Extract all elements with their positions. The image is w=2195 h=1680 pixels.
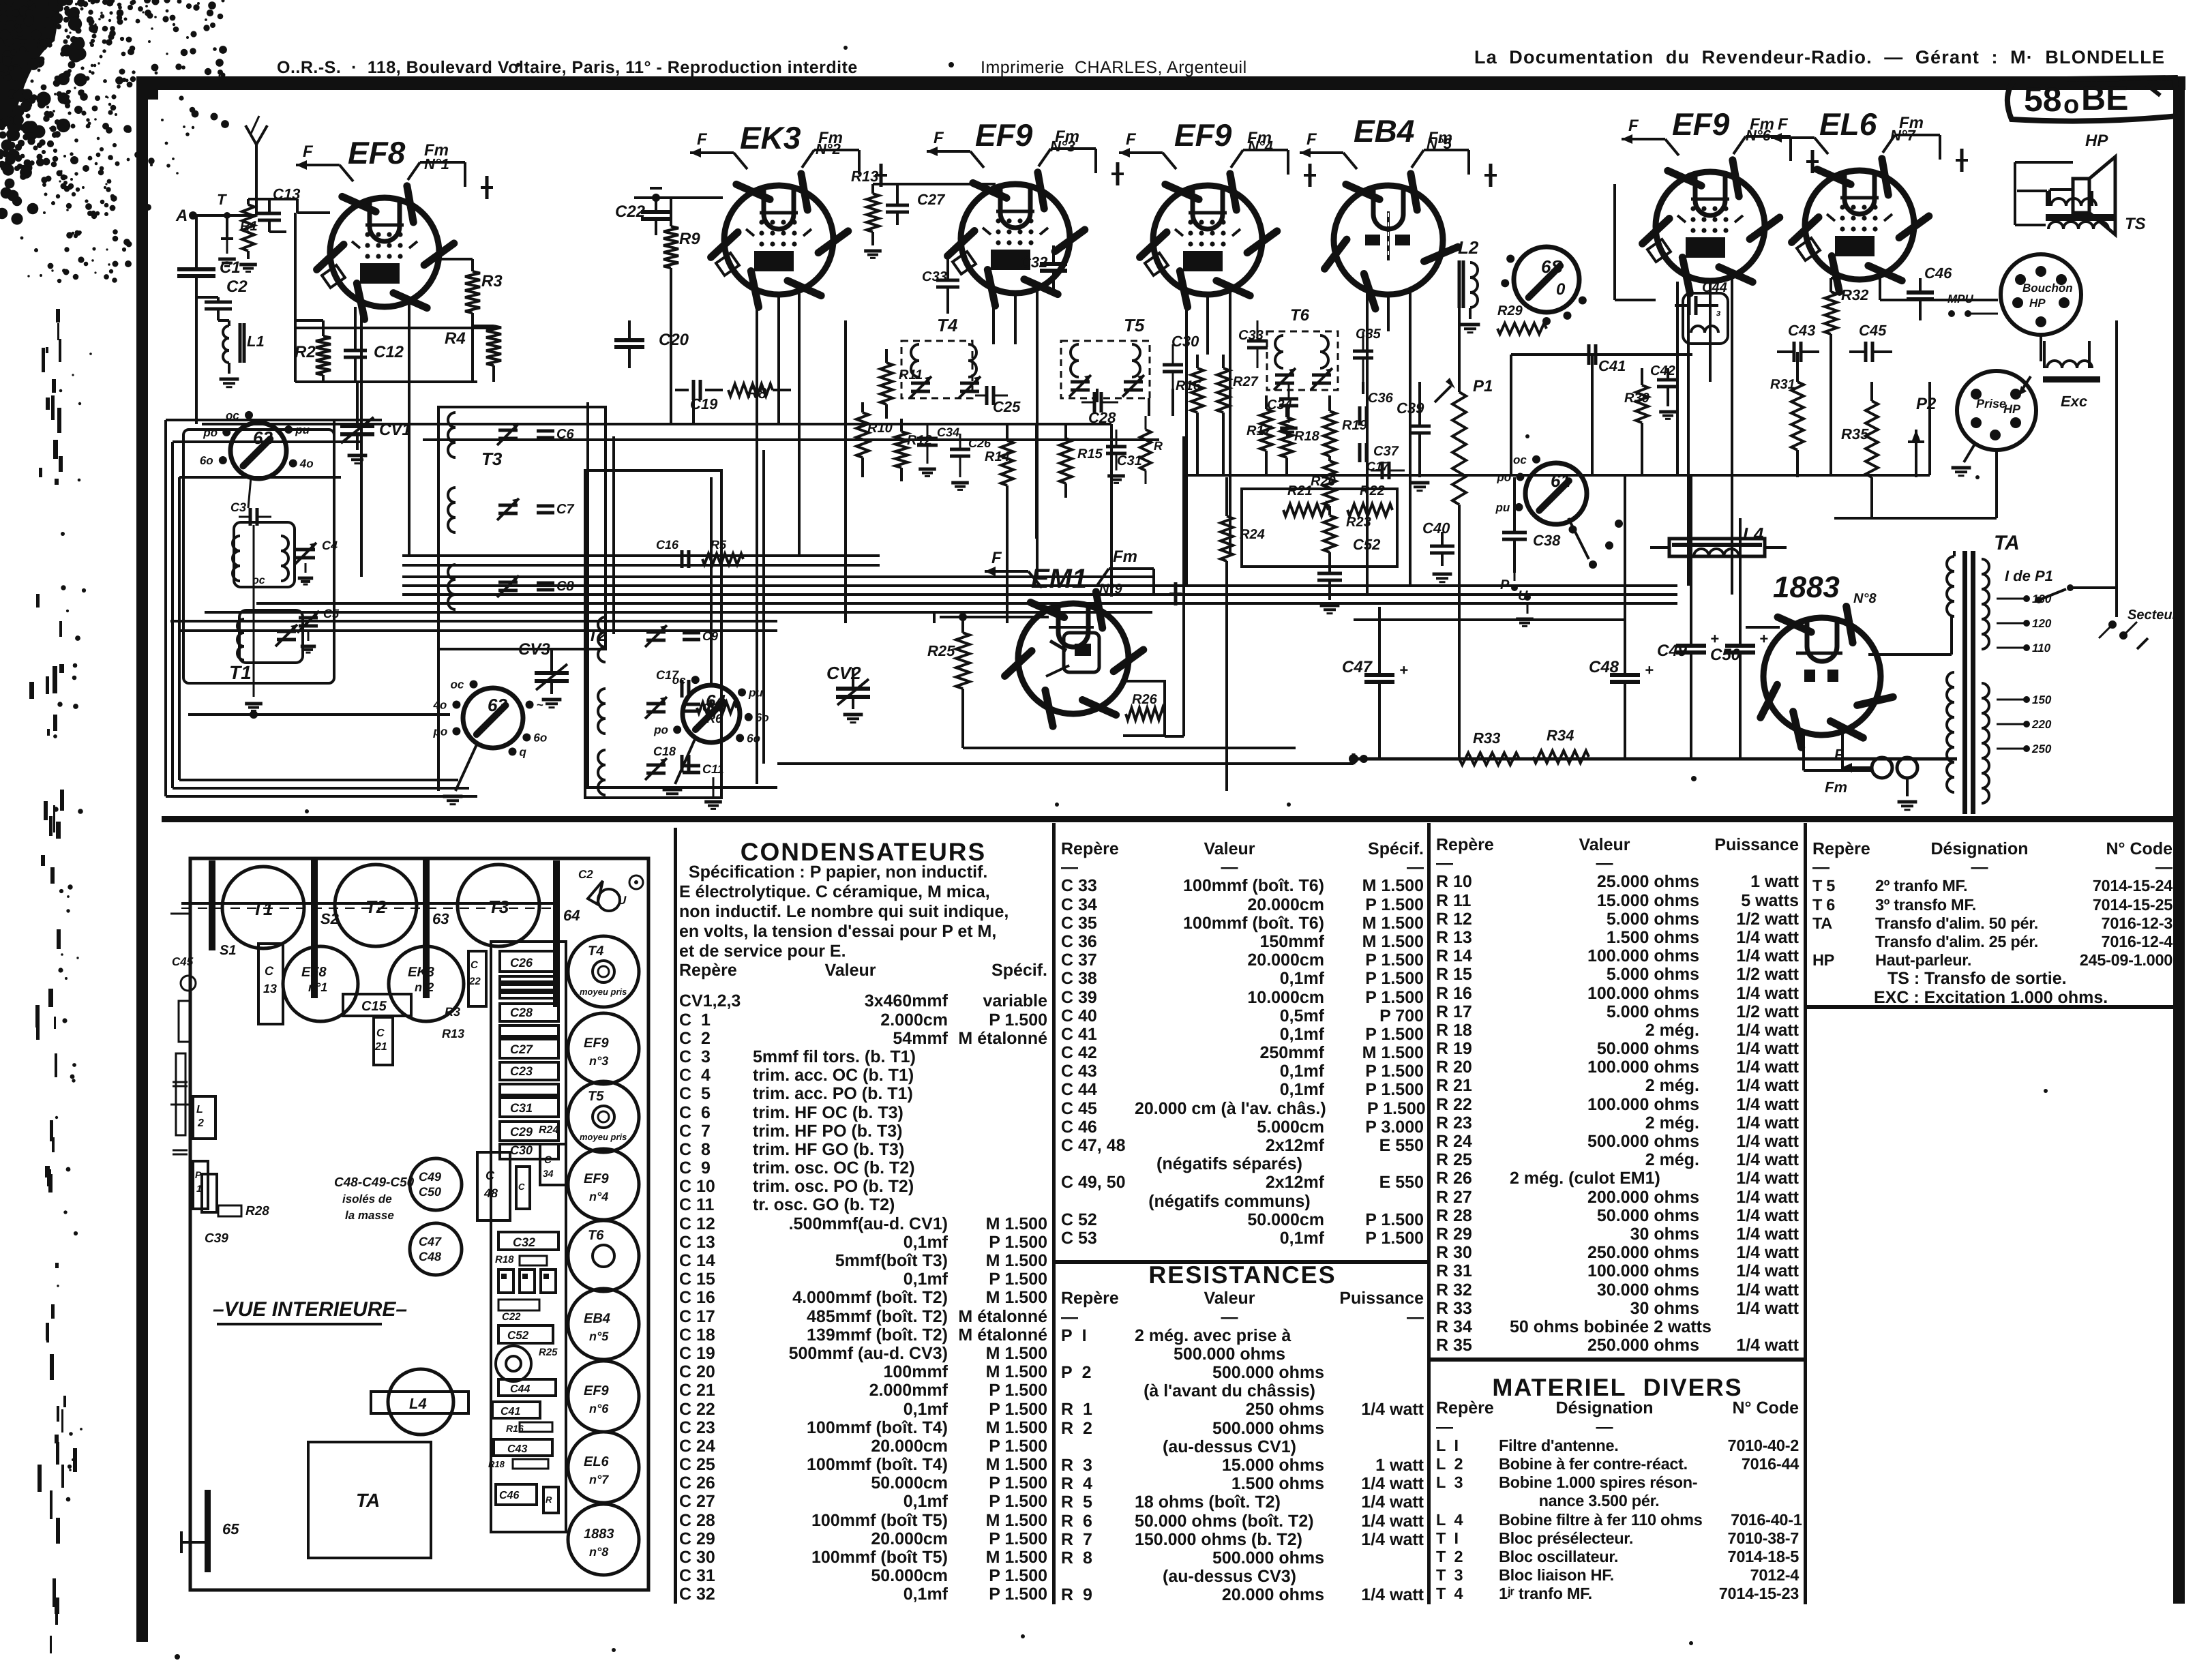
svg-text:C26: C26 xyxy=(510,956,533,970)
svg-text:C3: C3 xyxy=(230,500,246,514)
svg-text:³: ³ xyxy=(1716,309,1721,324)
tube EF9 N4 xyxy=(1153,185,1262,295)
svg-text:C: C xyxy=(265,964,274,978)
svg-text:C43: C43 xyxy=(1788,322,1815,339)
condenser C46 chassis xyxy=(496,1484,537,1505)
svg-text:S2: S2 xyxy=(320,910,340,927)
T1 trimmer C4 xyxy=(296,548,315,552)
svg-text:n°4: n°4 xyxy=(589,1190,608,1203)
svg-text:C20: C20 xyxy=(659,331,689,349)
wire C47 bus xyxy=(1354,618,1625,621)
svg-text:C25: C25 xyxy=(993,398,1021,415)
part Rk xyxy=(543,1487,558,1513)
svg-text:250: 250 xyxy=(2031,742,2052,755)
EL6 filament marks xyxy=(1771,136,1815,139)
svg-text:n°1: n°1 xyxy=(308,980,327,994)
EM1 bottom wire xyxy=(961,723,964,748)
tube EF8 location xyxy=(283,946,358,1021)
speaker HP xyxy=(2073,179,2089,213)
svg-text:TA: TA xyxy=(1994,532,2020,554)
svg-text:n°8: n°8 xyxy=(589,1545,608,1559)
svg-text:+: + xyxy=(1645,661,1654,678)
svg-text:R24: R24 xyxy=(539,1124,558,1136)
model label 580BE box xyxy=(2007,78,2178,121)
svg-text:TS: TS xyxy=(2125,215,2146,233)
svg-text:R4: R4 xyxy=(445,329,466,348)
svg-text:T5: T5 xyxy=(1124,315,1145,335)
svg-text:EF8: EF8 xyxy=(301,965,327,980)
svg-text:R28: R28 xyxy=(245,1204,269,1218)
fuse ground xyxy=(1906,778,1909,796)
T1 bottom bus xyxy=(188,713,450,716)
svg-text:R5: R5 xyxy=(711,538,727,552)
svg-text:L1: L1 xyxy=(247,333,265,350)
wire bus mid0a xyxy=(402,554,880,557)
svg-text:R18: R18 xyxy=(1294,429,1320,444)
strip components xyxy=(500,951,558,972)
tube 1883 N8 xyxy=(1763,618,1881,735)
svg-text:C50: C50 xyxy=(1710,646,1741,664)
svg-text:L: L xyxy=(196,1104,203,1115)
svg-text:58: 58 xyxy=(2024,80,2062,119)
svg-text:13: 13 xyxy=(263,982,277,995)
svg-text:T2: T2 xyxy=(365,897,387,917)
wire bus right xyxy=(1183,474,1677,477)
svg-text:R3: R3 xyxy=(445,1005,460,1019)
svg-text:C46: C46 xyxy=(1924,265,1952,282)
wire bus low2 xyxy=(586,786,777,789)
svg-text:T6: T6 xyxy=(1290,306,1310,325)
svg-text:Fm: Fm xyxy=(424,141,449,160)
wire EF8 cathode bus xyxy=(295,380,477,383)
svg-text:n°5: n°5 xyxy=(589,1330,609,1343)
TA secondary top coil xyxy=(1982,559,1989,574)
coil L1 xyxy=(223,326,229,338)
svg-text:R18: R18 xyxy=(488,1459,505,1469)
svg-text:C46: C46 xyxy=(499,1490,519,1501)
switch wafer 62 xyxy=(230,423,286,479)
wire loop around 62 xyxy=(333,420,335,436)
svg-text:110: 110 xyxy=(2032,642,2051,655)
svg-text:T1: T1 xyxy=(229,662,252,683)
capacitor C17 xyxy=(681,680,684,697)
svg-text:C43: C43 xyxy=(507,1443,527,1455)
svg-text:C29: C29 xyxy=(510,1125,533,1139)
capacitor C26s xyxy=(950,448,970,451)
condenser C21 location xyxy=(374,1017,393,1065)
svg-text:EF9: EF9 xyxy=(1174,117,1232,153)
bloc T3 coils xyxy=(448,412,456,427)
svg-text:Fm: Fm xyxy=(1750,115,1774,134)
bloc T2 coils xyxy=(598,617,606,632)
small screw xyxy=(629,875,643,889)
tube EF9 N3 xyxy=(961,184,1070,293)
svg-text:C: C xyxy=(486,1169,495,1182)
svg-text:C18: C18 xyxy=(653,745,676,758)
condenser C43 chassis xyxy=(494,1439,552,1456)
EK3 filament marks xyxy=(690,151,734,154)
svg-text:EL6: EL6 xyxy=(584,1454,610,1469)
svg-text:Fm: Fm xyxy=(818,129,843,147)
condenser C32 chassis xyxy=(498,1232,558,1250)
svg-text:P1: P1 xyxy=(1473,377,1493,395)
svg-text:C52: C52 xyxy=(507,1329,529,1342)
svg-text:Fm: Fm xyxy=(1113,547,1137,566)
wire bouchon-prise xyxy=(2040,335,2042,361)
trimmer slat S1 xyxy=(209,860,215,950)
condenser C41 chassis xyxy=(492,1402,540,1418)
gang section T3 xyxy=(458,865,539,946)
svg-text:po: po xyxy=(432,725,447,738)
resistor R15b xyxy=(1140,430,1151,470)
left wire bundle bends xyxy=(166,419,382,421)
EF9 N6 filament marks xyxy=(1622,138,1665,140)
bloc T2 box xyxy=(585,470,721,798)
resistor R28 chassis xyxy=(218,1205,241,1216)
grommet circle xyxy=(496,1346,531,1381)
wire 62 to T1 xyxy=(248,477,251,508)
svg-text:R25: R25 xyxy=(539,1347,558,1358)
svg-text:F: F xyxy=(1126,130,1137,149)
svg-text:65: 65 xyxy=(222,1520,239,1537)
prise HP ground xyxy=(1964,442,1976,462)
switch wafer 6S xyxy=(1514,247,1579,312)
T1 trimmer C5b xyxy=(277,630,296,633)
svg-text:la masse: la masse xyxy=(345,1209,394,1222)
tube EK3 location xyxy=(389,946,464,1021)
wire prise drop xyxy=(1995,450,1998,518)
svg-text:T: T xyxy=(217,191,227,208)
svg-text:C28: C28 xyxy=(510,1006,533,1019)
svg-text:21: 21 xyxy=(374,1041,387,1053)
wire bus h1 xyxy=(295,380,477,383)
svg-text:L2: L2 xyxy=(1458,237,1479,258)
svg-text:R2: R2 xyxy=(295,343,316,361)
condenser C44 chassis xyxy=(498,1379,556,1396)
coil L2 chassis xyxy=(193,1096,215,1139)
trimmer slat 64 xyxy=(553,860,560,1007)
svg-text:I de P1: I de P1 xyxy=(2005,567,2053,584)
svg-text:R9: R9 xyxy=(679,230,700,248)
svg-text:–VUE INTERIEURE–: –VUE INTERIEURE– xyxy=(213,1298,407,1321)
tube sockets column xyxy=(568,936,639,1007)
svg-text:F: F xyxy=(1628,117,1639,135)
svg-text:2: 2 xyxy=(197,1117,204,1129)
fuse F xyxy=(1872,757,1892,778)
svg-text:C48-C49-C50: C48-C49-C50 xyxy=(334,1175,415,1190)
EM1 filament marks xyxy=(985,570,1028,573)
ground L1 xyxy=(220,378,239,381)
svg-text:63: 63 xyxy=(488,695,507,715)
svg-text:R16: R16 xyxy=(506,1423,524,1434)
svg-text:TA: TA xyxy=(356,1490,380,1511)
svg-text:L4: L4 xyxy=(409,1395,427,1412)
svg-text:150: 150 xyxy=(2032,693,2052,706)
svg-text:C30: C30 xyxy=(510,1143,533,1157)
svg-text:EK3: EK3 xyxy=(740,120,801,155)
svg-text:34: 34 xyxy=(543,1168,554,1179)
condenser C13 location xyxy=(258,944,283,1024)
svg-text:Fm: Fm xyxy=(1428,129,1452,147)
svg-text:EB4: EB4 xyxy=(1354,113,1414,149)
svg-text:EF9: EF9 xyxy=(584,1171,610,1186)
svg-text:Bouchon: Bouchon xyxy=(2022,282,2073,295)
tube EL6 N7 xyxy=(1805,170,1914,280)
TA secondary bottom coil xyxy=(1982,683,1989,698)
T1 trimmer C5 xyxy=(299,616,318,620)
svg-text:U: U xyxy=(618,894,627,907)
svg-text:C49: C49 xyxy=(419,1170,441,1184)
TA primary top coil xyxy=(1947,556,1954,571)
node EM1 left xyxy=(959,613,967,621)
wire EL6 to bouchon xyxy=(1880,299,1998,301)
frame right border xyxy=(2173,76,2185,1604)
transformer TA core xyxy=(1962,551,1967,814)
svg-text:HP: HP xyxy=(2085,132,2108,150)
svg-text:C: C xyxy=(376,1027,385,1039)
svg-text:O..R.-S. · 118, Boulevard Vo: O..R.-S. · 118, Boulevard Voltaire, Pari… xyxy=(277,58,858,77)
svg-text:6o: 6o xyxy=(533,732,547,745)
svg-text:Fm: Fm xyxy=(1825,779,1847,796)
svg-text:61: 61 xyxy=(1551,470,1570,491)
svg-text:F: F xyxy=(934,129,944,147)
transformer TA chassis xyxy=(308,1442,431,1558)
svg-text:C34: C34 xyxy=(937,425,959,439)
svg-text:T1: T1 xyxy=(252,899,273,919)
T1 capacitor C3 xyxy=(249,508,252,526)
svg-text:T3: T3 xyxy=(488,897,509,917)
svg-text:isolés de: isolés de xyxy=(342,1192,392,1205)
wire bus h3 xyxy=(423,438,1159,441)
svg-text:C27: C27 xyxy=(510,1042,533,1056)
switch wafer 61 xyxy=(1525,463,1587,524)
pot P1 chassis xyxy=(193,1161,208,1209)
svg-text:64: 64 xyxy=(563,907,580,924)
svg-text:0: 0 xyxy=(1556,280,1566,299)
frame left border xyxy=(136,76,148,1642)
svg-text:R29: R29 xyxy=(1497,303,1523,318)
svg-text:+: + xyxy=(1399,661,1408,678)
svg-text:R33: R33 xyxy=(1473,730,1500,747)
svg-text:1883: 1883 xyxy=(1773,571,1840,604)
svg-text:6o: 6o xyxy=(200,454,213,467)
TA primary bottom coil xyxy=(1947,672,1954,687)
svg-text:n°7: n°7 xyxy=(589,1473,609,1486)
svg-text:C22: C22 xyxy=(502,1311,521,1323)
condenser C23 location xyxy=(468,951,486,1006)
T1 center wire xyxy=(253,525,255,697)
wire secteur loop xyxy=(2070,586,2117,589)
bloc T1 box xyxy=(183,430,334,683)
capacitor C34s xyxy=(917,437,938,440)
svg-text:R6: R6 xyxy=(706,712,723,725)
filter C49 C50 xyxy=(410,1158,462,1210)
svg-text:C38: C38 xyxy=(1533,532,1561,549)
svg-text:R32: R32 xyxy=(1841,286,1869,303)
condenser C15 location xyxy=(343,994,411,1016)
svg-text:F: F xyxy=(697,130,708,149)
EF9 N3 filament marks xyxy=(927,150,970,153)
capacitor C18 xyxy=(681,755,684,772)
svg-text:HP: HP xyxy=(2029,297,2046,310)
svg-text:Secteur: Secteur xyxy=(2127,607,2179,622)
coil L4 chassis xyxy=(388,1369,453,1435)
svg-text:R27: R27 xyxy=(1233,374,1259,389)
svg-text:C17: C17 xyxy=(656,668,679,682)
svg-text:C40: C40 xyxy=(1422,520,1450,537)
component strip outline xyxy=(491,942,566,1532)
wire bus mid5 xyxy=(205,611,1152,614)
svg-text:C4: C4 xyxy=(322,539,338,552)
node ground bus left xyxy=(1360,755,1368,763)
svg-text:L4: L4 xyxy=(1743,524,1764,544)
filter C47 C48 xyxy=(410,1223,462,1275)
svg-text:Fm: Fm xyxy=(1247,129,1272,147)
svg-text:EF9: EF9 xyxy=(1672,106,1730,142)
svg-text:R34: R34 xyxy=(1547,727,1574,744)
capacitor C51 chassis xyxy=(516,1167,530,1209)
svg-text:EM1: EM1 xyxy=(1031,564,1087,594)
svg-text:C48: C48 xyxy=(419,1250,441,1263)
svg-text:C16: C16 xyxy=(656,538,679,552)
resistor R7 ground xyxy=(713,777,715,796)
svg-text:La Documentation du Revende: La Documentation du Revendeur-Radio. — G… xyxy=(1474,47,2165,67)
svg-text:C2: C2 xyxy=(578,868,593,881)
wire bus mid4 xyxy=(256,602,1677,605)
wire bus mid1 xyxy=(402,575,1152,578)
61 lever xyxy=(1568,518,1589,559)
svg-text:1883: 1883 xyxy=(584,1527,614,1542)
tube EB4 N5 xyxy=(1334,185,1443,295)
svg-text:63: 63 xyxy=(432,910,449,927)
svg-text:6S: 6S xyxy=(1541,256,1563,277)
svg-text:C41: C41 xyxy=(1598,357,1626,374)
svg-text:T4: T4 xyxy=(588,944,603,959)
svg-text:n°3: n°3 xyxy=(589,1054,608,1068)
socket U xyxy=(598,889,620,911)
switch wafer 64 xyxy=(683,685,740,742)
svg-text:C: C xyxy=(544,1154,552,1166)
svg-text:T3: T3 xyxy=(481,449,503,469)
svg-text:HP: HP xyxy=(2003,402,2021,416)
svg-text:BE: BE xyxy=(2081,79,2128,117)
bloc T3 box xyxy=(438,407,606,649)
svg-text:Imprimerie CHARLES, Argenteui: Imprimerie CHARLES, Argenteuil xyxy=(981,58,1247,77)
svg-text:R21: R21 xyxy=(1287,483,1313,498)
svg-text:R22: R22 xyxy=(1360,483,1385,498)
svg-text:C27: C27 xyxy=(917,191,946,208)
svg-text:C36: C36 xyxy=(1368,391,1394,406)
svg-text:C32: C32 xyxy=(513,1235,535,1249)
svg-text:C15: C15 xyxy=(361,999,387,1014)
wire C41 line xyxy=(1511,353,1692,356)
svg-text:EF9: EF9 xyxy=(975,117,1033,153)
svg-text:C50: C50 xyxy=(419,1185,441,1199)
frame top border xyxy=(140,76,2185,100)
wire bus mid0b xyxy=(402,564,880,567)
bouchon HP plug xyxy=(2001,254,2081,335)
svg-text:n°6: n°6 xyxy=(589,1402,609,1415)
T1 cell 2 box xyxy=(239,610,303,663)
EF9 N4 filament marks xyxy=(1119,151,1163,154)
svg-text:oc: oc xyxy=(451,678,464,691)
capacitor C16 xyxy=(681,550,684,568)
wire 1883 plate xyxy=(1868,653,1952,656)
svg-text:P2: P2 xyxy=(1916,395,1937,413)
capacitor C48 chassis xyxy=(477,1152,510,1220)
capacitor C54 chassis xyxy=(540,1144,566,1185)
coil 63 box xyxy=(1683,293,1728,344)
svg-text:C42: C42 xyxy=(1650,363,1675,378)
trimmer slat 63 xyxy=(423,858,430,998)
voltage taps xyxy=(1997,598,2024,600)
transformer TS xyxy=(2051,198,2066,206)
gang axis line xyxy=(181,902,556,905)
wire R4 junction xyxy=(471,258,474,260)
svg-text:R15: R15 xyxy=(1077,447,1103,462)
EF8 filament marks xyxy=(296,164,340,166)
EB4 filament marks xyxy=(1300,151,1343,154)
svg-text:moyeu pris: moyeu pris xyxy=(580,987,627,997)
wire bus mid2 xyxy=(402,584,1677,587)
svg-text:C41: C41 xyxy=(501,1406,520,1417)
svg-text:po: po xyxy=(203,426,218,439)
excitation coil Exc xyxy=(2047,361,2062,368)
chassis left ticks xyxy=(170,913,190,915)
svg-text:N°8: N°8 xyxy=(1853,591,1877,606)
64 lever to ground xyxy=(675,738,696,784)
svg-text:220: 220 xyxy=(2031,718,2052,731)
svg-text:R11: R11 xyxy=(899,367,923,382)
svg-text:C44: C44 xyxy=(510,1383,530,1395)
svg-text:R13: R13 xyxy=(442,1027,464,1040)
wire tube drops xyxy=(360,297,363,577)
svg-text:po: po xyxy=(653,723,668,736)
chassis outline xyxy=(190,858,648,1590)
left wire bundle verticals xyxy=(164,420,167,796)
svg-text:C2: C2 xyxy=(226,277,248,296)
svg-text:EK3: EK3 xyxy=(408,965,434,980)
1883 filament leads xyxy=(1802,731,1805,770)
svg-text:R35: R35 xyxy=(1841,425,1869,442)
svg-text:oc: oc xyxy=(1513,453,1527,466)
T1 coil a xyxy=(233,536,240,551)
svg-text:C23: C23 xyxy=(510,1064,533,1078)
svg-text:C37: C37 xyxy=(1373,444,1399,459)
svg-text:C39: C39 xyxy=(205,1231,228,1246)
svg-text:C: C xyxy=(471,959,479,971)
svg-text:48: 48 xyxy=(483,1186,498,1200)
svg-text:C: C xyxy=(518,1182,525,1192)
svg-text:R18: R18 xyxy=(495,1254,514,1265)
node EK3 left xyxy=(652,194,660,202)
svg-text:R25: R25 xyxy=(927,642,955,659)
wire bus mid7 xyxy=(179,629,777,632)
wire bus mid3 xyxy=(402,593,1677,596)
svg-text:F: F xyxy=(1834,746,1844,763)
label R16 xyxy=(520,1422,552,1432)
gang section T2 xyxy=(335,865,417,946)
svg-text:R13: R13 xyxy=(851,168,878,185)
svg-text:R3: R3 xyxy=(481,272,503,290)
tube EK3 N2 xyxy=(724,185,833,295)
T1 coil b xyxy=(237,619,244,633)
svg-text:T4: T4 xyxy=(937,315,958,335)
wire loop EB4 bottom xyxy=(1242,489,1397,567)
node A xyxy=(189,211,197,220)
svg-text:C31: C31 xyxy=(1117,453,1142,468)
wire EF8 left drop xyxy=(294,213,297,328)
